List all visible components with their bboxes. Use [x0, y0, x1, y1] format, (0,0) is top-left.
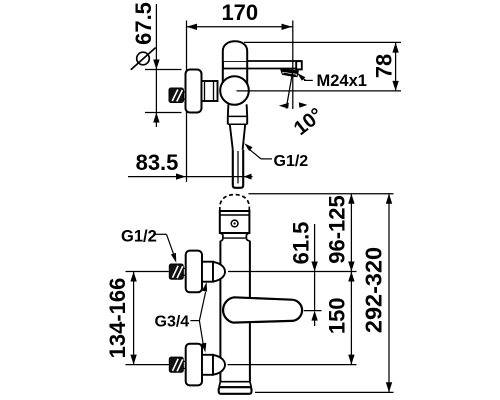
foot base — [219, 387, 252, 394]
svg-text:G1/2: G1/2 — [121, 228, 157, 246]
swing arrow left — [279, 103, 289, 109]
dimension 78 lower extension line — [237, 90, 402, 92]
label G3/4 leader — [155, 282, 208, 353]
body column below ball — [228, 104, 247, 124]
dimension 78 extension lines — [244, 41, 401, 43]
union connector body — [202, 81, 218, 101]
wall escutcheon flange (side view) — [186, 70, 202, 113]
outlet cone — [230, 124, 245, 150]
dimension 83.5 — [128, 150, 253, 180]
dimension dia 67.5 — [131, 2, 182, 127]
swing arrow right — [299, 102, 308, 108]
bottom union: knurled nut G3/4 — [169, 357, 186, 372]
bottom union: cylinder — [202, 355, 213, 375]
svg-text:96-125: 96-125 — [324, 195, 349, 264]
dimension 170 — [187, 0, 293, 30]
dimension 150 — [324, 272, 354, 365]
centerline lever — [304, 310, 322, 312]
svg-text:M24x1: M24x1 — [317, 72, 367, 90]
svg-text:170: 170 — [221, 0, 258, 25]
top union: cylinder — [202, 262, 213, 282]
bottom union: boss half-round — [213, 355, 225, 375]
label G1/2 leader (front view) — [121, 228, 176, 263]
top union: knurled nut G1/2 — [169, 264, 186, 279]
cartridge ball — [220, 76, 249, 105]
dimension 61.5 — [289, 222, 318, 326]
top union: boss half-round — [213, 262, 225, 282]
svg-text:150: 150 — [324, 297, 349, 334]
swivel 10 degree tilted line — [286, 71, 293, 109]
centerline bottom union — [126, 364, 169, 366]
dimension 78 — [371, 43, 398, 91]
svg-text:83.5: 83.5 — [136, 150, 179, 175]
lever handle pill — [223, 297, 302, 322]
svg-text:67.5: 67.5 — [131, 2, 156, 45]
extension line top (dome top) — [249, 193, 394, 195]
svg-text:G3/4: G3/4 — [155, 314, 190, 331]
dashed handle dome (front view) — [220, 195, 250, 211]
svg-text:61.5: 61.5 — [289, 222, 314, 265]
svg-text:134-166: 134-166 — [105, 278, 130, 359]
label G1/2 leader (top view) — [244, 143, 308, 170]
centerline top union — [126, 271, 169, 273]
neck groove — [220, 233, 250, 241]
handle dome (side view) — [223, 41, 247, 61]
top union: wall flange — [186, 251, 202, 293]
wire spout end extension / swivel axis — [292, 21, 294, 110]
svg-text:78: 78 — [371, 54, 396, 78]
knurled nut (side view) — [169, 88, 186, 103]
spout — [223, 61, 302, 69]
cap with screw — [220, 211, 250, 233]
dimension 292-320 — [361, 194, 393, 392]
wire wall extension line — [186, 21, 188, 183]
svg-text:292-320: 292-320 — [361, 247, 387, 333]
foot rings — [219, 382, 251, 387]
label M24x1 leader — [297, 72, 367, 90]
bottom union: wall flange — [186, 344, 202, 386]
svg-text:G1/2: G1/2 — [274, 153, 309, 170]
body sides below dome — [222, 61, 224, 85]
dimension 134-166 — [105, 272, 137, 365]
dimension 96-125 — [324, 194, 354, 272]
extension line bottom (foot) — [255, 391, 394, 393]
main body column — [220, 241, 250, 382]
aerator M24x1 (under spout end) — [281, 69, 299, 77]
shower outlet tube G1/2 — [233, 150, 243, 188]
